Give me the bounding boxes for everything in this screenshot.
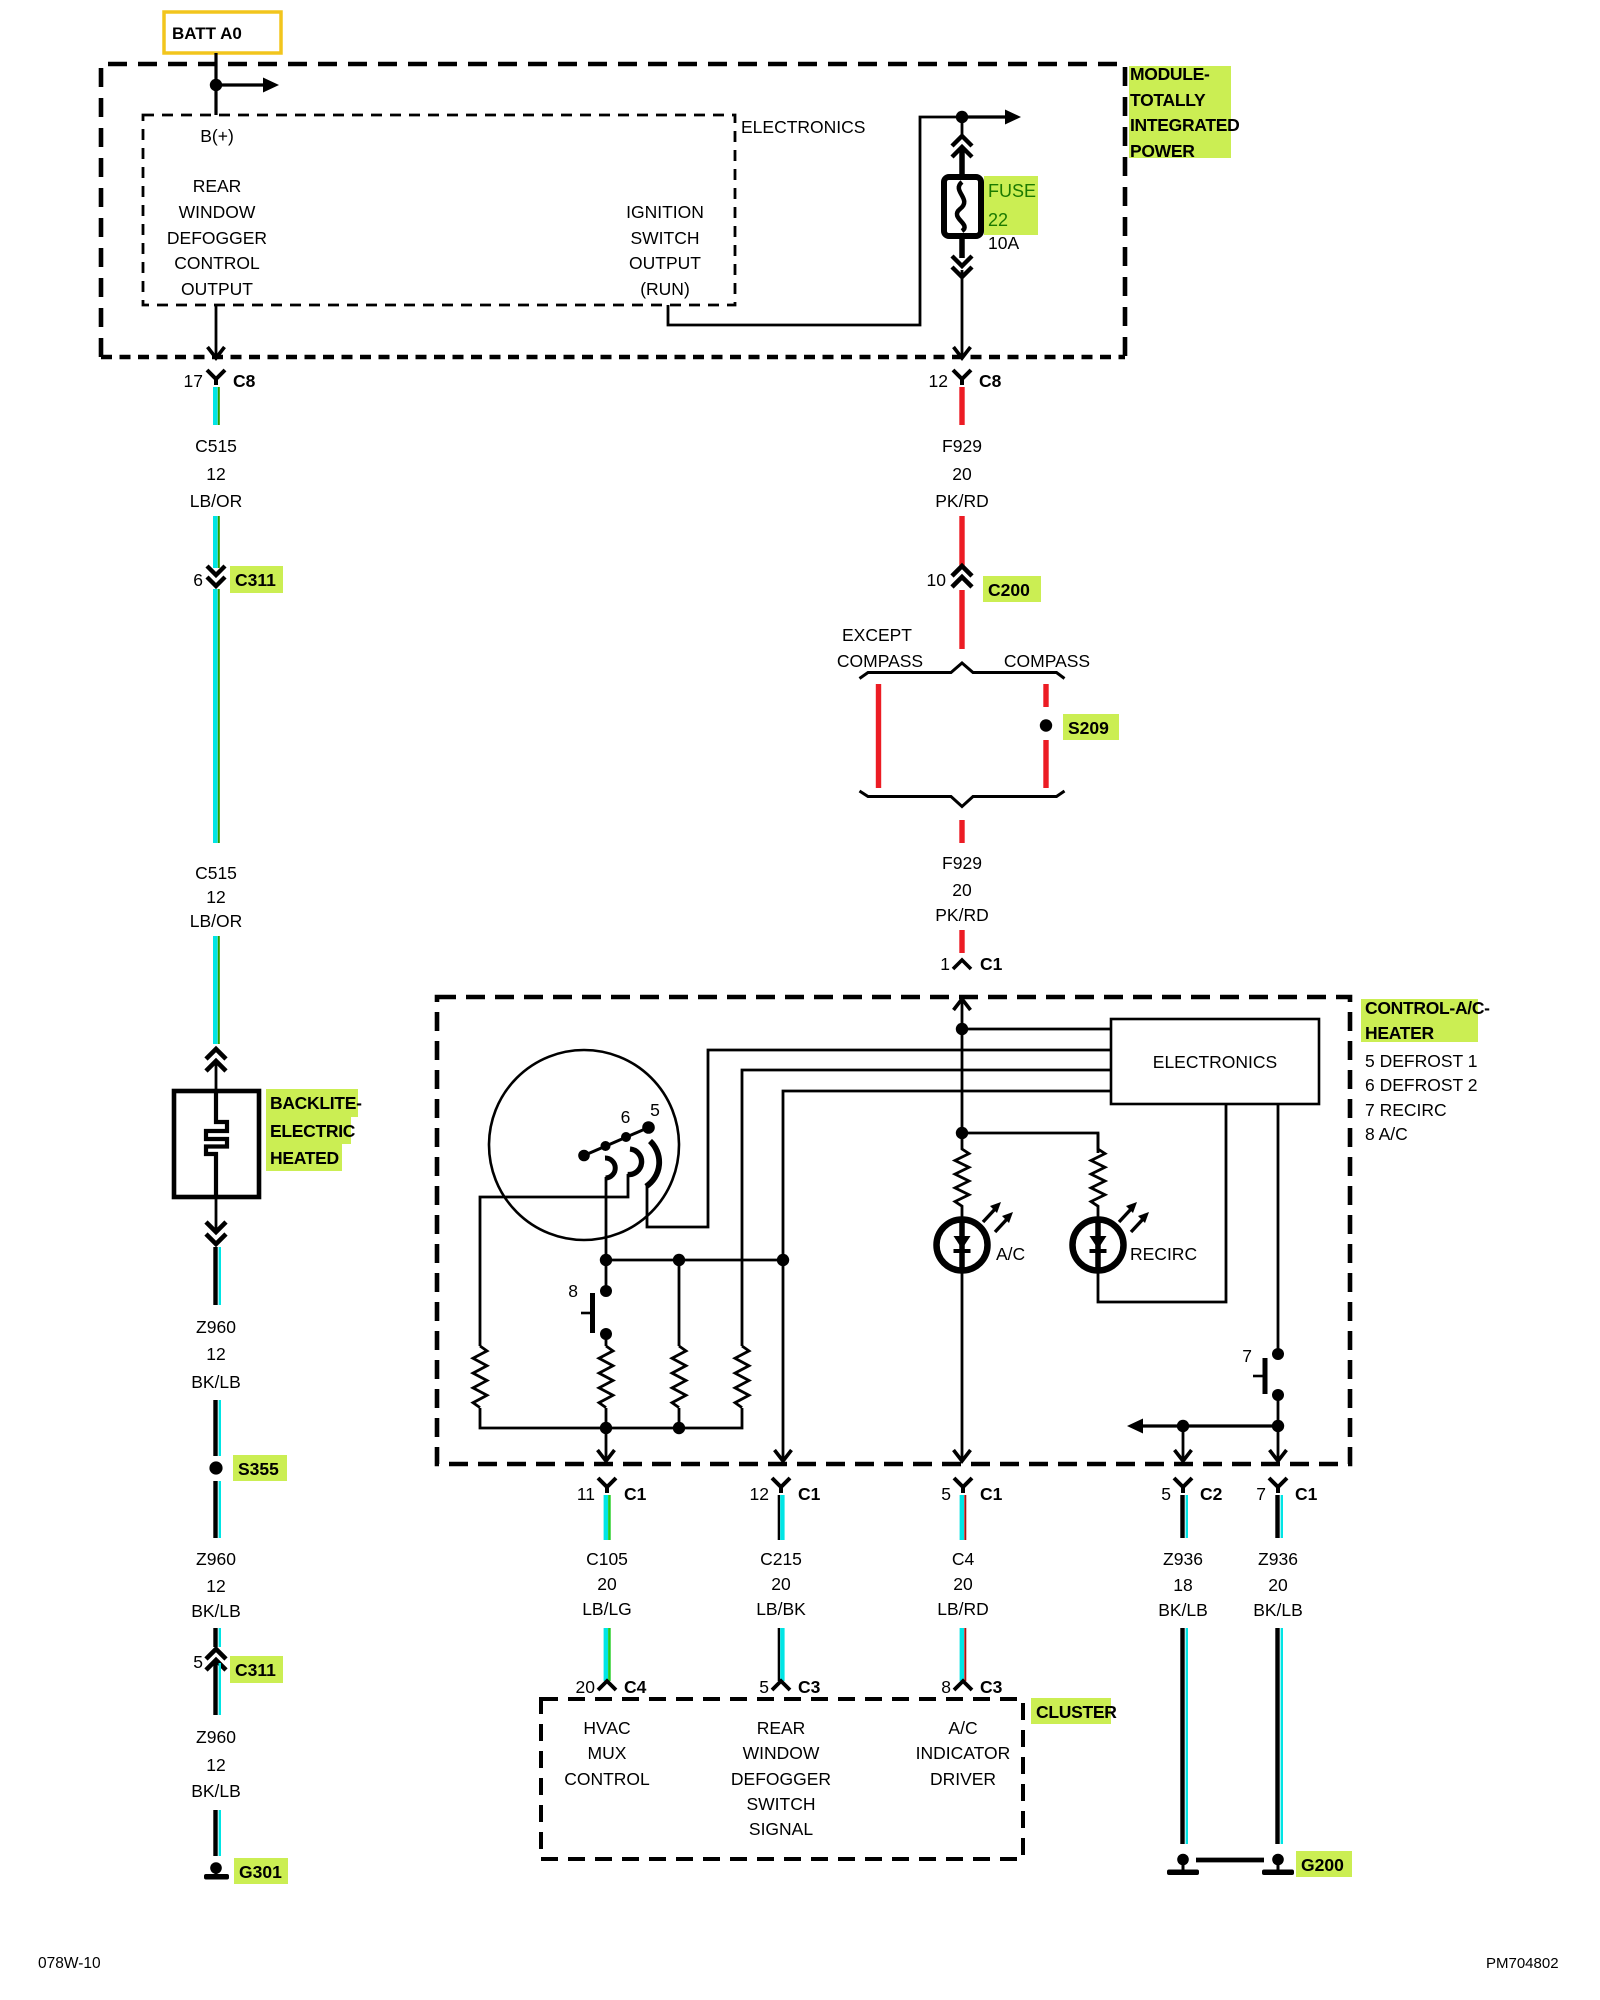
svg-text:IGNITION: IGNITION: [626, 202, 704, 222]
svg-text:HVAC: HVAC: [583, 1718, 630, 1738]
wire Z960 12 BK/LB segment 1: [216, 1247, 220, 1305]
svg-text:REAR: REAR: [193, 176, 242, 196]
label FUSE 22 (highlighted): [984, 176, 1038, 235]
wire to connector C1 pin 12 (arrow): [775, 1260, 792, 1461]
wire contact 6 to resistor R1: [480, 1174, 628, 1346]
svg-text:C1: C1: [980, 954, 1003, 974]
wire C4 20 LB/RD segment 2: [962, 1628, 966, 1681]
wire switch 7 down: [1277, 1395, 1280, 1426]
node battery junction: [210, 79, 222, 91]
wire C215 20 LB/BK segment 2: [779, 1628, 783, 1681]
svg-text:20: 20: [952, 880, 972, 900]
svg-text:(RUN): (RUN): [640, 279, 690, 299]
svg-text:LB/LG: LB/LG: [582, 1599, 632, 1619]
svg-text:5: 5: [941, 1484, 951, 1504]
wire R2 to bottom bus: [605, 1408, 608, 1428]
electronics box (control head): [1111, 1019, 1319, 1104]
svg-text:18: 18: [1173, 1575, 1192, 1595]
LED RECIRC indicator: [1073, 1202, 1150, 1271]
svg-text:SIGNAL: SIGNAL: [749, 1819, 813, 1839]
wire arrow to other circuits (right): [216, 78, 279, 93]
svg-text:BK/LB: BK/LB: [1158, 1600, 1208, 1620]
wire switch 8 to resistor R2: [605, 1334, 608, 1346]
svg-text:BK/LB: BK/LB: [191, 1372, 241, 1392]
wire RECIRC LED return to electronics: [1098, 1104, 1226, 1302]
svg-text:5: 5: [193, 1652, 203, 1672]
svg-text:OUTPUT: OUTPUT: [629, 253, 701, 273]
svg-text:17: 17: [184, 371, 203, 391]
svg-text:ELECTRIC: ELECTRIC: [270, 1121, 356, 1141]
svg-text:REAR: REAR: [757, 1718, 806, 1738]
splice S355: [209, 1455, 287, 1481]
inline connector chevrons at backlite: [206, 1049, 226, 1071]
label IGNITION SWITCH OUTPUT (RUN): [626, 202, 704, 299]
label CLUSTER (highlighted): [1031, 1698, 1117, 1724]
svg-text:CONTROL: CONTROL: [174, 253, 260, 273]
connector C1 pin 7: [1256, 1478, 1317, 1504]
wire C515 12 LB/OR segment 1: [215, 387, 219, 425]
svg-text:CONTROL-A/C-: CONTROL-A/C-: [1365, 998, 1490, 1018]
svg-text:ELECTRONICS: ELECTRONICS: [1153, 1052, 1277, 1072]
svg-text:WINDOW: WINDOW: [743, 1743, 820, 1763]
svg-text:HEATED: HEATED: [270, 1148, 339, 1168]
svg-text:FUSE: FUSE: [988, 181, 1036, 201]
svg-text:BACKLITE-: BACKLITE-: [270, 1093, 362, 1113]
label Z960 12 BK/LB (middle): [191, 1549, 241, 1621]
cluster dashed box: [541, 1699, 1023, 1859]
svg-text:LB/OR: LB/OR: [190, 491, 243, 511]
svg-text:F929: F929: [942, 436, 982, 456]
svg-text:C8: C8: [233, 371, 256, 391]
connector C3 pin 5: [759, 1677, 820, 1697]
svg-text:BATT A0: BATT A0: [172, 24, 242, 43]
svg-text:20: 20: [597, 1574, 617, 1594]
wire compass branch (red) upper: [1043, 684, 1048, 707]
svg-text:G301: G301: [239, 1862, 282, 1882]
node bottom bus dot a: [600, 1422, 612, 1434]
label HVAC MUX CONTROL: [564, 1718, 650, 1789]
wire bus mid: [606, 1259, 783, 1262]
rotary mode switch circle: [489, 1050, 679, 1240]
svg-text:S209: S209: [1068, 718, 1109, 738]
svg-text:12: 12: [206, 1755, 225, 1775]
node A/C branch junction: [956, 1127, 968, 1139]
wire F929 20 PK/RD segment 3: [959, 590, 964, 649]
svg-text:LB/OR: LB/OR: [190, 911, 243, 931]
pushbutton switch 8: [568, 1281, 612, 1340]
svg-text:A/C: A/C: [996, 1244, 1025, 1264]
svg-text:DEFOGGER: DEFOGGER: [167, 228, 267, 248]
svg-text:LB/BK: LB/BK: [756, 1599, 806, 1619]
wire Z960 12 BK/LB segment 6: [216, 1810, 220, 1856]
wire F929 20 PK/RD segment 4: [959, 820, 964, 843]
svg-text:F929: F929: [942, 853, 982, 873]
inline connector C311 pin 5: [193, 1649, 283, 1683]
wire arrow to other circuits (left): [1127, 1419, 1278, 1434]
svg-text:8: 8: [568, 1281, 578, 1301]
svg-text:20: 20: [952, 464, 972, 484]
wire arrow entering control box top: [954, 999, 971, 1133]
svg-text:1: 1: [940, 954, 950, 974]
svg-text:MUX: MUX: [588, 1743, 627, 1763]
label MODULE-TOTALLY INTEGRATED POWER: [1129, 64, 1239, 161]
wire to connector C2 pin 5 (arrow): [1175, 1426, 1192, 1461]
label F929 20 PK/RD (upper): [935, 436, 988, 511]
svg-text:C8: C8: [979, 371, 1002, 391]
svg-text:CLUSTER: CLUSTER: [1036, 1702, 1117, 1722]
svg-text:C1: C1: [980, 1484, 1003, 1504]
svg-text:12: 12: [206, 887, 225, 907]
svg-text:G200: G200: [1301, 1855, 1344, 1875]
wire bus to electronics: [783, 1091, 1111, 1260]
svg-text:DEFOGGER: DEFOGGER: [731, 1769, 831, 1789]
svg-text:INDICATOR: INDICATOR: [916, 1743, 1011, 1763]
svg-text:BK/LB: BK/LB: [1253, 1600, 1303, 1620]
wire F929 20 PK/RD segment 1: [959, 387, 964, 425]
wire C105 20 LB/LG segment 2: [606, 1628, 610, 1681]
svg-text:C1: C1: [1295, 1484, 1318, 1504]
svg-text:MODULE-: MODULE-: [1130, 64, 1210, 84]
connector C1 pin 12: [750, 1478, 821, 1504]
node bus dot a: [600, 1254, 612, 1266]
connector C1 pin 5: [941, 1478, 1002, 1504]
wire Z960 12 BK/LB segment 2: [216, 1400, 220, 1456]
brace split top: [860, 663, 1065, 679]
resistor A/C LED: [955, 1134, 969, 1218]
svg-text:20: 20: [1268, 1575, 1288, 1595]
svg-text:Z960: Z960: [196, 1727, 236, 1747]
svg-text:PK/RD: PK/RD: [935, 491, 988, 511]
resistor RECIRC LED: [1091, 1133, 1105, 1218]
control A/C-heater dashed box: [437, 997, 1350, 1464]
resistor R3: [672, 1346, 686, 1408]
wire F929 20 PK/RD segment 2: [959, 516, 964, 566]
label REAR WINDOW DEFOGGER SWITCH SIGNAL: [731, 1718, 831, 1839]
label A/C INDICATOR DRIVER: [916, 1718, 1011, 1789]
label EXCEPT COMPASS: [837, 625, 923, 671]
wire F929 20 PK/RD segment 5: [959, 930, 964, 953]
splice S209: [1040, 714, 1119, 740]
svg-text:22: 22: [988, 210, 1008, 230]
wire feed to electronics: [962, 1028, 1111, 1031]
label CONTROL-A/C-HEATER (highlighted): [1361, 998, 1490, 1043]
wire Z960 12 BK/LB segment 5: [216, 1663, 220, 1715]
svg-text:8 A/C: 8 A/C: [1365, 1124, 1408, 1144]
wire below backlite: [215, 1197, 218, 1232]
svg-text:HEATER: HEATER: [1365, 1023, 1435, 1043]
svg-text:7 RECIRC: 7 RECIRC: [1365, 1100, 1447, 1120]
LED A/C indicator: [937, 1202, 1014, 1271]
svg-text:C200: C200: [988, 580, 1030, 600]
inline connector chevrons below backlite: [206, 1222, 226, 1244]
wire Z936 20 BK/LB segment 2 (long): [1278, 1628, 1282, 1844]
wire except-compass branch (red): [876, 684, 881, 788]
wire bottom bus: [480, 1408, 742, 1428]
module-totally integrated power dashed box: [101, 64, 1125, 357]
wire fuse output down to connector C8 pin 12: [954, 270, 971, 358]
wire Z960 12 BK/LB segment 4: [216, 1628, 220, 1647]
label C515 12 LB/OR (upper): [190, 436, 243, 511]
svg-text:DRIVER: DRIVER: [930, 1769, 996, 1789]
wire recirc branch top: [962, 1133, 1098, 1153]
label C515 12 LB/OR (lower): [190, 863, 243, 931]
svg-text:PK/RD: PK/RD: [935, 905, 988, 925]
svg-text:7: 7: [1242, 1346, 1252, 1366]
connector C8 pin 17: [184, 370, 256, 391]
svg-text:Z936: Z936: [1258, 1549, 1298, 1569]
wire electronics to switch 7: [1277, 1104, 1280, 1354]
wire C4 20 LB/RD segment 1: [962, 1495, 966, 1540]
svg-text:SWITCH: SWITCH: [746, 1794, 815, 1814]
wire from BATT A0 down into module: [214, 53, 217, 115]
connector C2 pin 5: [1161, 1478, 1222, 1504]
svg-text:C3: C3: [980, 1677, 1003, 1697]
svg-text:C311: C311: [235, 570, 276, 590]
node fuse feed junction: [956, 111, 968, 123]
label F929 20 PK/RD (lower): [935, 853, 988, 925]
svg-text:7: 7: [1256, 1484, 1266, 1504]
wire Z960 12 BK/LB segment 3: [216, 1481, 220, 1538]
ground G200 left symbol: [1167, 1854, 1199, 1875]
wire compass branch (red) lower: [1043, 740, 1048, 788]
wire A/C LED to connector C1 pin 5 (arrow): [954, 1271, 971, 1461]
brace merge bottom: [860, 791, 1065, 807]
svg-text:C3: C3: [798, 1677, 821, 1697]
svg-text:20: 20: [576, 1677, 596, 1697]
battery feed box BATT A0: [164, 12, 281, 53]
wire thick into fuse: [959, 150, 965, 182]
resistor R2: [599, 1346, 613, 1408]
inline connector C200 pin 10: [927, 566, 1041, 602]
svg-text:A/C: A/C: [948, 1718, 977, 1738]
svg-text:5: 5: [650, 1100, 660, 1120]
node switch 7 output junction: [1272, 1420, 1284, 1432]
wire ground link: [1196, 1858, 1264, 1863]
wire to connector C1 pin 7 (arrow): [1270, 1426, 1287, 1461]
svg-text:C105: C105: [586, 1549, 628, 1569]
svg-text:S355: S355: [238, 1459, 279, 1479]
label BACKLITE-ELECTRIC HEATED (highlighted): [266, 1089, 362, 1171]
wire arrow to other circuits (right of fuse node): [962, 110, 1021, 125]
svg-text:EXCEPT: EXCEPT: [842, 625, 912, 645]
wire into backlite: [215, 1062, 218, 1092]
svg-text:C311: C311: [235, 1660, 276, 1680]
svg-text:078W-10: 078W-10: [38, 1955, 101, 1972]
node bus dot c: [777, 1254, 789, 1266]
label Z936 18 BK/LB: [1158, 1549, 1208, 1620]
node feed junction upper: [956, 1023, 968, 1035]
connector C8 pin 12: [929, 370, 1002, 391]
label Z960 12 BK/LB (lower): [191, 1727, 241, 1801]
wire resistor R4 to electronics: [742, 1070, 1111, 1346]
wire thick below fuse: [959, 236, 965, 258]
node ground branch junction: [1177, 1420, 1189, 1432]
inline connector chevrons above fuse: [952, 117, 972, 157]
svg-text:BK/LB: BK/LB: [191, 1781, 241, 1801]
svg-text:RECIRC: RECIRC: [1130, 1244, 1197, 1264]
node bus dot b: [673, 1254, 685, 1266]
svg-text:C1: C1: [798, 1484, 821, 1504]
wire C515 12 LB/OR segment 3 (long): [215, 589, 219, 843]
svg-text:LB/RD: LB/RD: [937, 1599, 989, 1619]
resistor R1: [473, 1346, 487, 1408]
switch contact arc 1: [605, 1158, 615, 1178]
svg-text:ELECTRONICS: ELECTRONICS: [741, 117, 865, 137]
connector C1 pin 1: [940, 954, 1002, 974]
svg-text:C2: C2: [1200, 1484, 1223, 1504]
wire Z936 18 BK/LB segment 1: [1183, 1495, 1187, 1538]
svg-text:B(+): B(+): [200, 126, 234, 146]
wire C215 20 LB/BK segment 1: [779, 1495, 783, 1540]
label C105 20 LB/LG: [582, 1549, 632, 1619]
svg-text:C1: C1: [624, 1484, 647, 1504]
svg-text:12: 12: [206, 1576, 225, 1596]
svg-text:C215: C215: [760, 1549, 802, 1569]
svg-text:CONTROL: CONTROL: [564, 1769, 650, 1789]
wire defrost1 (contact 5) to electronics: [647, 1050, 1111, 1227]
svg-text:8: 8: [941, 1677, 951, 1697]
wire C515 12 LB/OR segment 4: [215, 936, 219, 1044]
inner function dashed box (rear window defogger control / ignition switch output): [143, 115, 735, 305]
wire Z936 20 BK/LB segment 1: [1278, 1495, 1282, 1538]
svg-text:COMPASS: COMPASS: [837, 651, 923, 671]
connector C1 pin 11: [577, 1478, 647, 1504]
svg-text:Z960: Z960: [196, 1317, 236, 1337]
svg-text:WINDOW: WINDOW: [179, 202, 256, 222]
wire R3 to bottom bus: [678, 1408, 681, 1428]
node bottom bus dot b: [673, 1422, 685, 1434]
wire Z936 18 BK/LB segment 2 (long): [1183, 1628, 1187, 1844]
svg-text:11: 11: [577, 1484, 595, 1504]
wire to connector C1 pin 11 (arrow): [598, 1428, 615, 1461]
svg-text:12: 12: [206, 464, 225, 484]
svg-text:TOTALLY: TOTALLY: [1130, 90, 1206, 110]
backlite-electric heated element: [174, 1091, 259, 1197]
svg-text:12: 12: [929, 371, 948, 391]
svg-text:INTEGRATED: INTEGRATED: [1130, 115, 1239, 135]
pin list 5 DEFROST 1 / 6 DEFROST 2 / 7 RECIRC / 8 A/C: [1365, 1051, 1478, 1144]
svg-text:BK/LB: BK/LB: [191, 1601, 241, 1621]
svg-text:C4: C4: [952, 1549, 975, 1569]
resistor R4: [735, 1346, 749, 1408]
pushbutton switch 7: [1242, 1346, 1284, 1401]
svg-text:C515: C515: [195, 863, 237, 883]
svg-text:5 DEFROST 1: 5 DEFROST 1: [1365, 1051, 1478, 1071]
ground G301: [204, 1858, 288, 1884]
svg-text:20: 20: [771, 1574, 791, 1594]
svg-text:6: 6: [621, 1107, 631, 1127]
svg-text:6 DEFROST 2: 6 DEFROST 2: [1365, 1075, 1478, 1095]
switch contact arc 2: [628, 1149, 642, 1175]
svg-text:10A: 10A: [988, 233, 1019, 253]
svg-text:C515: C515: [195, 436, 237, 456]
svg-text:C4: C4: [624, 1677, 647, 1697]
svg-text:12: 12: [750, 1484, 769, 1504]
svg-text:20: 20: [953, 1574, 973, 1594]
svg-text:SWITCH: SWITCH: [630, 228, 699, 248]
svg-text:POWER: POWER: [1130, 141, 1195, 161]
wire C105 20 LB/LG segment 1: [606, 1495, 610, 1540]
wire defogger output down to connector C8 pin 17: [208, 305, 225, 358]
label Z936 20 BK/LB: [1253, 1549, 1303, 1620]
ground G200 right symbol: [1262, 1851, 1352, 1877]
svg-text:OUTPUT: OUTPUT: [181, 279, 253, 299]
svg-text:10: 10: [927, 570, 947, 590]
wire bus to resistor R3: [678, 1260, 681, 1346]
connector C3 pin 8: [941, 1677, 1002, 1697]
label Z960 12 BK/LB (upper): [191, 1317, 241, 1392]
wire ignition switch output to fuse node: [668, 117, 962, 325]
wire C515 12 LB/OR segment 2: [215, 516, 219, 568]
svg-text:5: 5: [1161, 1484, 1171, 1504]
svg-text:5: 5: [759, 1677, 769, 1697]
rotary switch wiper lever: [578, 1121, 655, 1161]
switch contact arc 3: [646, 1141, 659, 1187]
svg-text:Z960: Z960: [196, 1549, 236, 1569]
svg-text:Z936: Z936: [1163, 1549, 1203, 1569]
label C4 20 LB/RD: [937, 1549, 989, 1619]
inline connector C311 pin 6: [193, 566, 283, 593]
fuse FUSE 22 10A: [944, 177, 981, 236]
label C215 20 LB/BK: [756, 1549, 806, 1619]
svg-text:PM704802: PM704802: [1486, 1955, 1559, 1972]
svg-text:COMPASS: COMPASS: [1004, 651, 1090, 671]
wire contact arc1 down through bus to switch 8: [605, 1177, 608, 1291]
label REAR WINDOW DEFOGGER CONTROL OUTPUT: [167, 176, 267, 299]
svg-text:6: 6: [193, 570, 203, 590]
connector C4 pin 20: [576, 1677, 647, 1697]
svg-text:12: 12: [206, 1344, 225, 1364]
inline connector chevrons below fuse: [952, 256, 972, 277]
